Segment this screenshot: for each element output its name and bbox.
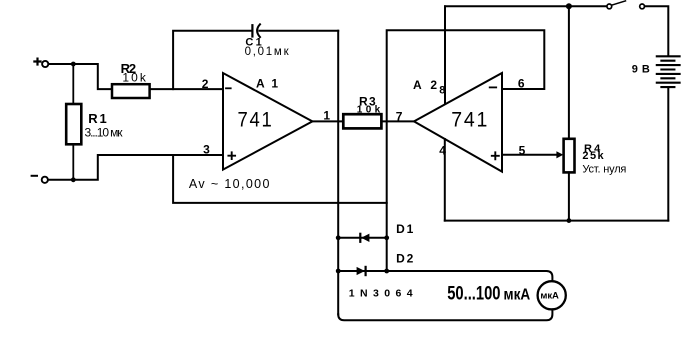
switch SA1: [607, 1, 645, 9]
svg-text:D 1: D 1: [396, 222, 414, 236]
input terminal -: [32, 176, 48, 183]
capacitor C1: [245, 24, 290, 58]
svg-text:741: 741: [451, 107, 489, 131]
svg-text:3...10 мк: 3...10 мк: [85, 126, 124, 140]
node: rail / R4 junction: [566, 3, 572, 9]
svg-text:D 2: D 2: [396, 251, 414, 265]
wire: feedback right vertical / output node down to diodes: [337, 31, 339, 315]
node: D2 right junction: [384, 269, 389, 274]
wire: feedback left vertical (pin 2 to C1): [173, 31, 252, 89]
wire: positive rail left segment: [445, 5, 607, 7]
wire: R2 to A1 pin 2: [150, 88, 223, 90]
wire: R1 bottom: [72, 144, 74, 180]
node: junction + input / R1 top: [71, 62, 76, 67]
svg-text:7: 7: [396, 109, 403, 123]
svg-text:A 1: A 1: [256, 76, 278, 90]
wire: battery negative down to bus: [667, 87, 669, 221]
op-amp A2: [413, 73, 502, 172]
node: R4 bottom / bus junction: [567, 218, 572, 223]
wire: A1 output to R3: [312, 120, 343, 122]
battery GB1 9V: [632, 56, 680, 87]
svg-text:8: 8: [439, 85, 445, 97]
wire: - terminal to A1 pin 3: [48, 155, 223, 180]
wire: bottom bus (battery negative): [445, 220, 669, 222]
wire: pin3 node to bottom bus: [173, 155, 387, 203]
wire: pin 8 from positive rail: [444, 6, 446, 103]
svg-text:741: 741: [238, 107, 274, 131]
resistor R3: [343, 95, 381, 129]
svg-text:6: 6: [518, 77, 525, 91]
label: 50...100 мкА: [447, 283, 530, 304]
svg-text:3: 3: [203, 143, 210, 157]
input terminal +: [34, 59, 48, 68]
wire: R4 bottom to bus: [568, 172, 570, 220]
wire: R1 top: [72, 64, 74, 104]
wire: C1 to A1 output node: [259, 30, 338, 32]
svg-text:Av ~ 10,000: Av ~ 10,000: [189, 177, 270, 191]
wire: A2 box top and left side, pin 6 feedback: [387, 30, 545, 271]
svg-text:10k: 10k: [122, 71, 146, 85]
diode D2: [338, 251, 413, 275]
wire: A2 pin 4 to bottom bus: [444, 139, 446, 221]
svg-text:25k: 25k: [582, 150, 604, 162]
wire: R3 to A2 pin 7: [381, 120, 414, 122]
wire: A2 pin 5 to R4 wiper with arrow: [502, 151, 563, 158]
svg-text:50...100: 50...100: [447, 283, 500, 304]
svg-text:A 2: A 2: [413, 78, 437, 92]
wire: positive rail right segment to battery: [645, 6, 669, 56]
node: D2 left junction: [336, 269, 341, 274]
diode D1: [338, 222, 413, 242]
wire: + terminal to R2: [49, 64, 113, 89]
op-amp A1: [202, 73, 313, 170]
potentiometer R4: [564, 139, 627, 176]
resistor R1: [66, 104, 123, 144]
wire: meter bottom loop back to D2 node: [338, 309, 552, 320]
meter PA1: [538, 281, 566, 309]
wire: D2 to meter loop top: [387, 271, 553, 281]
wire: R4 top to positive rail: [568, 6, 570, 139]
svg-text:мкА: мкА: [540, 291, 559, 302]
svg-text:2: 2: [202, 77, 209, 91]
svg-text:мкА: мкА: [504, 286, 531, 303]
resistor R2: [112, 61, 150, 98]
svg-text:R 1: R 1: [88, 111, 107, 126]
node: D1 right junction: [384, 235, 389, 240]
svg-text:Уст. нуля: Уст. нуля: [582, 163, 626, 175]
node: D1 left junction: [336, 235, 341, 240]
svg-text:10k: 10k: [357, 105, 381, 116]
node: junction - input / R1 bottom: [71, 177, 76, 182]
